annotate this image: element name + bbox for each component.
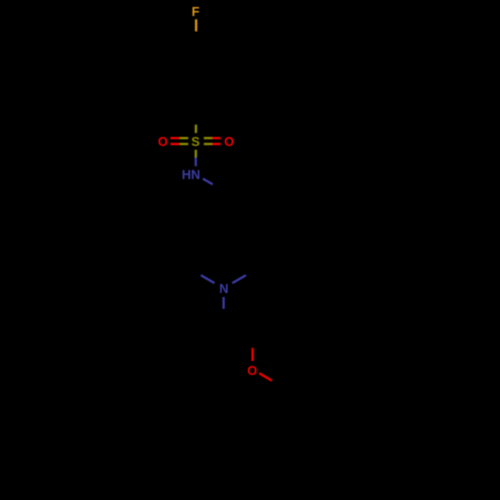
benzene ring 1 (fluorophenyl, carbon bonds invisible) <box>168 44 224 109</box>
bond CH2-C4pip (carbon) <box>222 190 225 223</box>
bond N-CH2 (carbon half) <box>213 184 224 190</box>
double bond S=O right (oxygen halves) <box>212 138 221 144</box>
bond F-C1 (carbon half) <box>195 31 197 44</box>
svg-text:N: N <box>219 281 228 296</box>
bond S-N (nitrogen half) <box>195 158 197 167</box>
svg-text:S: S <box>191 134 200 149</box>
bond N1-C2 piperidine (carbon part) <box>195 272 201 275</box>
svg-text:O: O <box>247 363 257 378</box>
bond F-C1 (gold half) <box>195 19 197 31</box>
svg-text:HN: HN <box>182 167 200 182</box>
piperidine ring carbon bonds <box>195 223 251 272</box>
double bond S=O left (sulfur halves) <box>180 138 188 144</box>
bond C7-C8 (carbon) <box>224 321 252 337</box>
svg-text:O: O <box>224 134 234 149</box>
bond N1-C2 piperidine (nitrogen part) <box>201 275 215 283</box>
svg-text:F: F <box>192 4 200 19</box>
bond N1-C7 chain (carbon part) <box>222 309 224 321</box>
bond N-CH2 (nitrogen half) <box>203 179 213 185</box>
bond O-C9 (oxygen half) <box>259 373 271 380</box>
bond S-N (sulfur half) <box>195 150 197 158</box>
svg-text:O: O <box>158 134 168 149</box>
bond C9-ring2 (carbon) <box>279 387 281 420</box>
bond N1-C6 piperidine (nitrogen part) <box>232 275 246 283</box>
double bond S=O left (oxygen halves) <box>170 138 179 144</box>
benzene ring 2 (benzyl, carbon bonds invisible) <box>252 419 308 484</box>
bond C8-O (carbon half) <box>251 337 254 348</box>
bond C4-S (sulfur half) <box>195 125 197 133</box>
bond C8-O (oxygen half) <box>251 348 253 361</box>
bond N1-C7 chain (nitrogen part) <box>222 297 224 309</box>
double bond S=O right (sulfur halves) <box>204 138 212 144</box>
bond C4-S (carbon half) <box>195 109 197 126</box>
bond N1-C6 piperidine (carbon part) <box>246 272 252 275</box>
bond O-C9 (carbon half) <box>272 381 281 387</box>
